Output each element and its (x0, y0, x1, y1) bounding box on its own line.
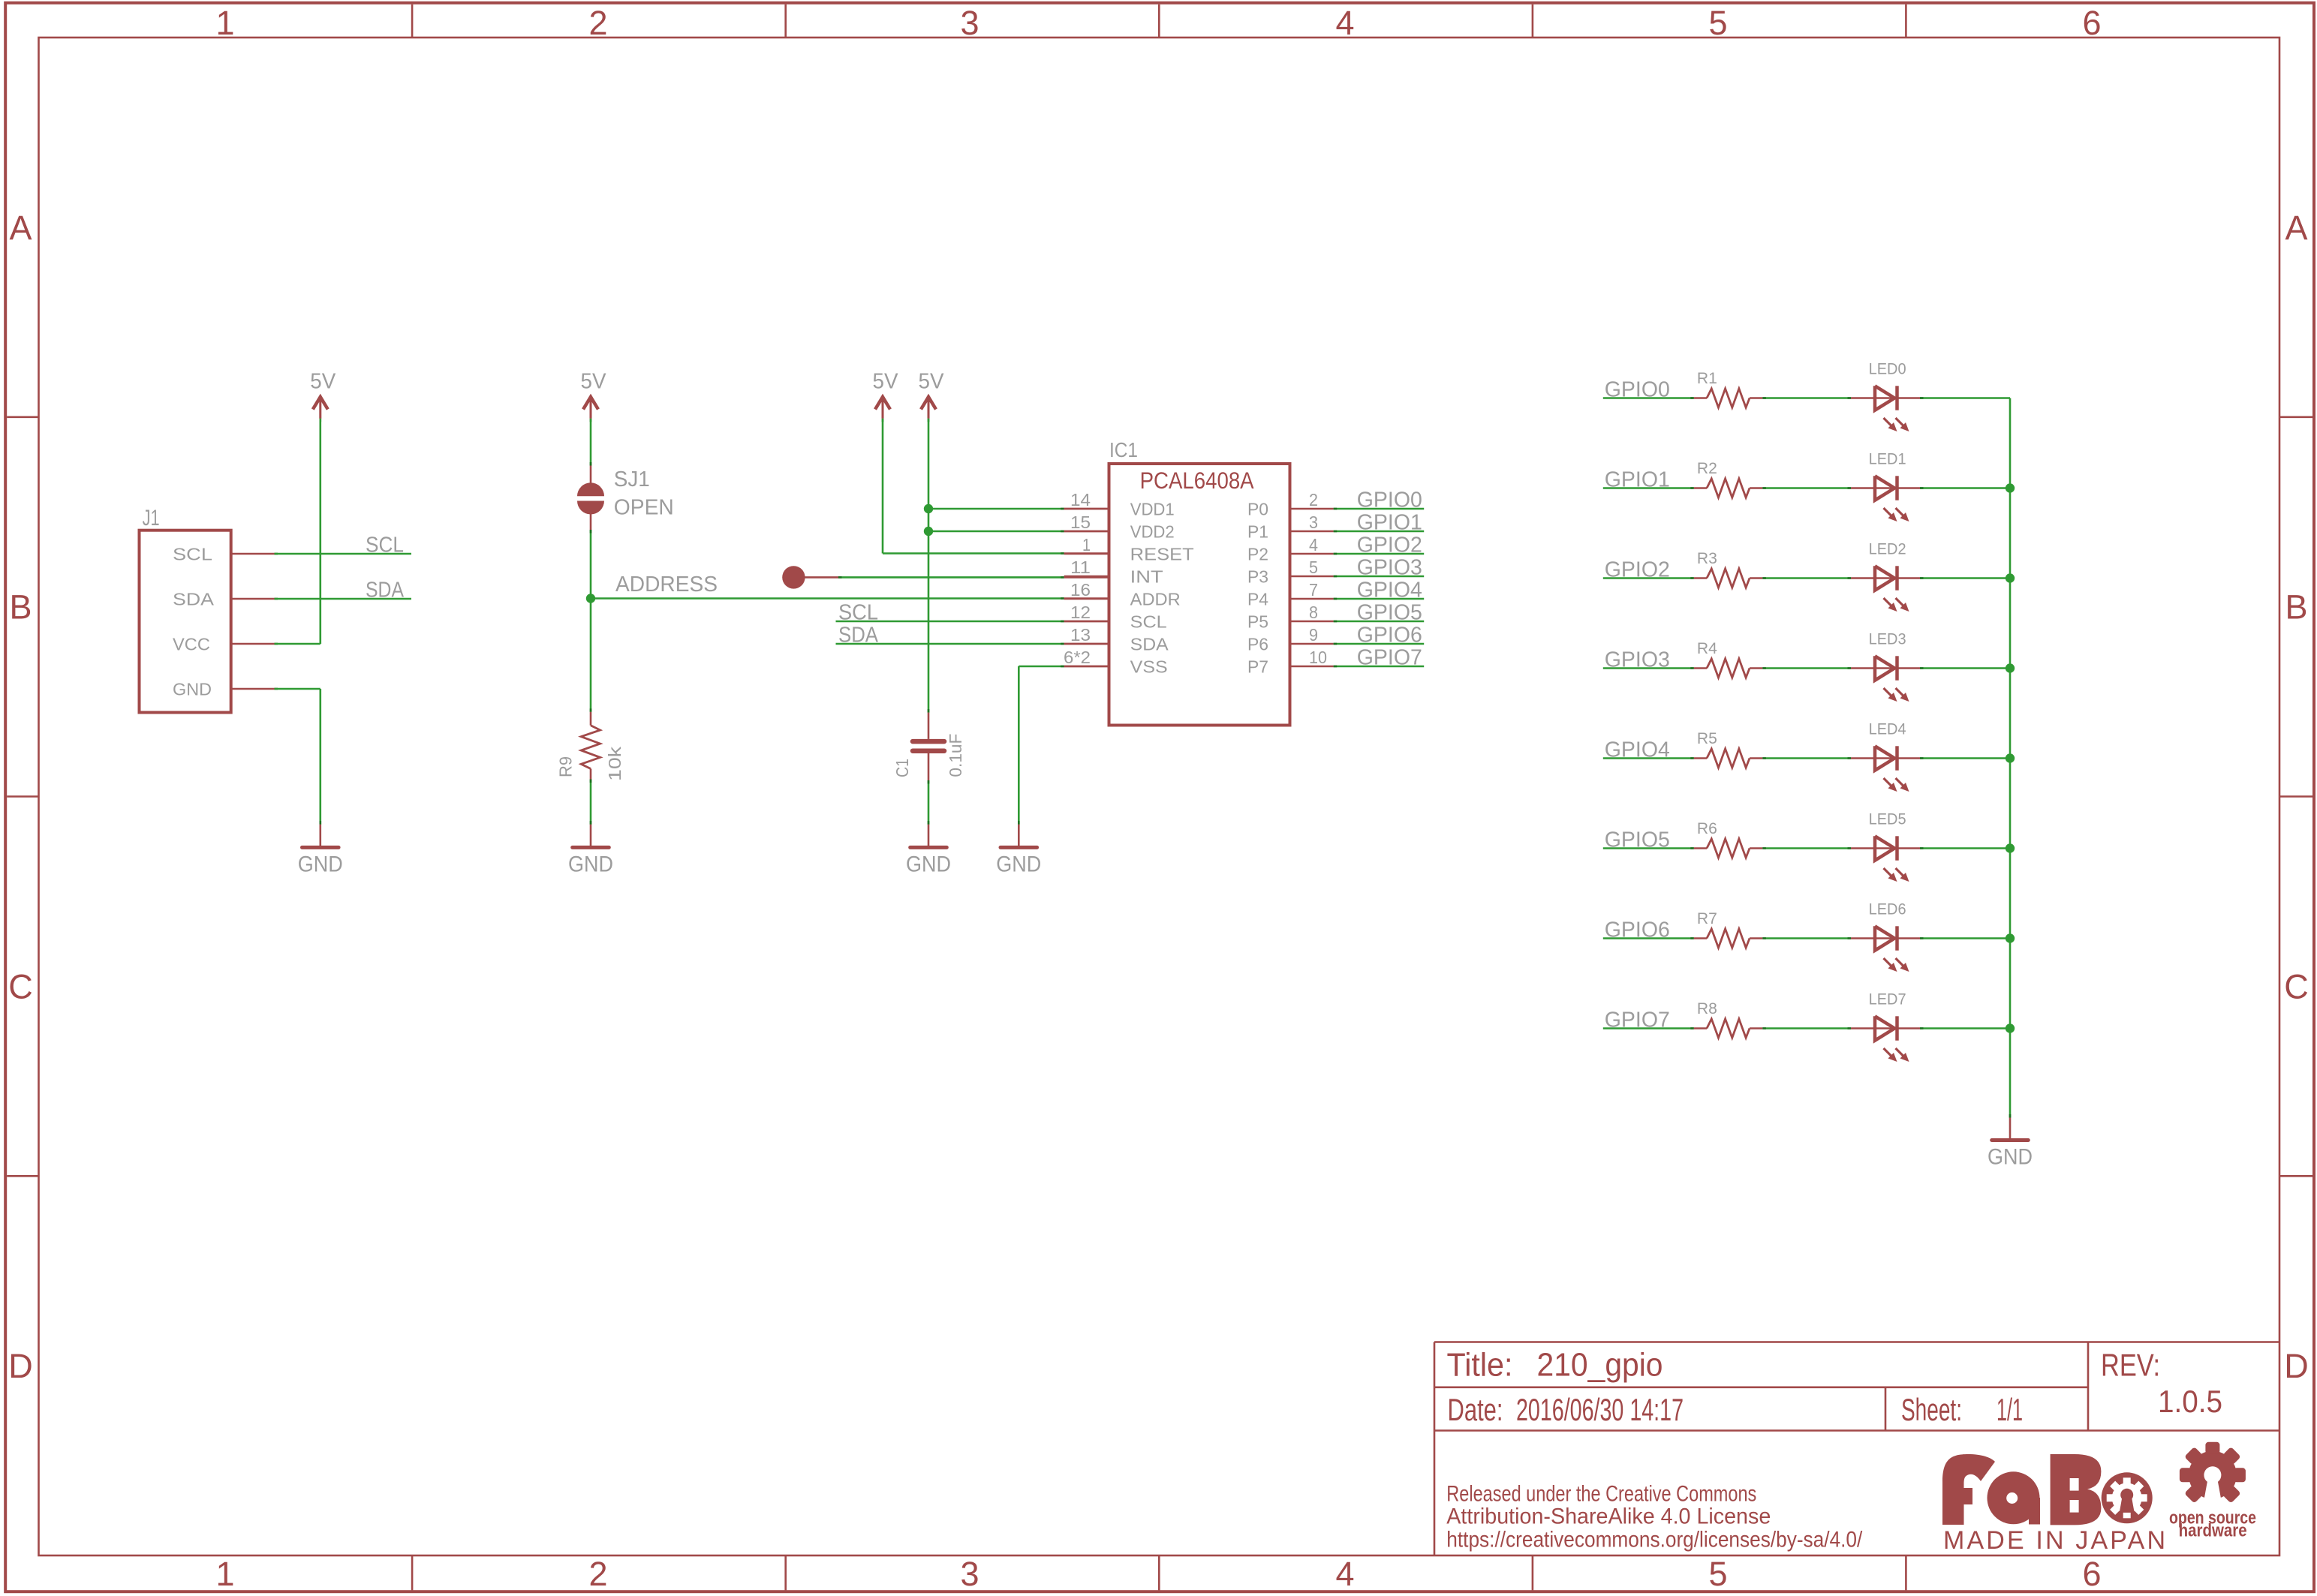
svg-text:C: C (2284, 967, 2309, 1005)
svg-text:3: 3 (960, 4, 979, 42)
svg-text:Released under the Creative Co: Released under the Creative Commons (1446, 1481, 1756, 1506)
svg-text:1.0.5: 1.0.5 (2158, 1384, 2222, 1419)
svg-text:4: 4 (1335, 4, 1354, 42)
svg-text:GND: GND (173, 680, 212, 699)
svg-text:https://creativecommons.org/li: https://creativecommons.org/licenses/by-… (1446, 1527, 1863, 1552)
svg-text:5V: 5V (919, 370, 945, 394)
svg-text:P4: P4 (1247, 590, 1268, 609)
svg-text:ADDRESS: ADDRESS (615, 573, 718, 597)
svg-text:LED2: LED2 (1869, 541, 1906, 558)
svg-text:GPIO4: GPIO4 (1357, 579, 1422, 603)
svg-text:GPIO7: GPIO7 (1357, 646, 1422, 670)
svg-text:GPIO6: GPIO6 (1605, 918, 1670, 942)
svg-text:VDD1: VDD1 (1130, 500, 1175, 519)
svg-text:GPIO0: GPIO0 (1357, 488, 1422, 512)
svg-text:6: 6 (2082, 4, 2101, 42)
svg-text:5V: 5V (581, 370, 607, 394)
svg-text:15: 15 (1070, 512, 1091, 532)
svg-text:GPIO1: GPIO1 (1605, 467, 1670, 491)
svg-text:Date:: Date: (1448, 1392, 1503, 1427)
svg-text:VSS: VSS (1130, 657, 1168, 677)
svg-text:LED7: LED7 (1869, 991, 1906, 1008)
svg-text:5V: 5V (310, 370, 336, 394)
svg-text:2: 2 (588, 1555, 607, 1593)
svg-text:R8: R8 (1697, 1000, 1717, 1017)
svg-text:2016/06/30 14:17: 2016/06/30 14:17 (1516, 1392, 1684, 1427)
svg-text:LED6: LED6 (1869, 901, 1906, 918)
svg-text:GPIO2: GPIO2 (1605, 558, 1670, 582)
svg-text:ADDR: ADDR (1130, 590, 1181, 609)
svg-text:R5: R5 (1697, 730, 1717, 747)
svg-text:GPIO4: GPIO4 (1605, 738, 1670, 762)
svg-text:SCL: SCL (838, 601, 878, 625)
svg-text:R1: R1 (1697, 370, 1717, 387)
svg-text:2: 2 (588, 4, 607, 42)
svg-text:3: 3 (1309, 512, 1318, 532)
svg-text:GPIO1: GPIO1 (1357, 511, 1422, 535)
svg-text:C1: C1 (892, 759, 912, 777)
svg-text:PCAL6408A: PCAL6408A (1140, 467, 1255, 494)
svg-text:A: A (2285, 209, 2307, 247)
svg-text:C: C (8, 967, 33, 1005)
svg-text:R9: R9 (556, 756, 576, 777)
svg-text:GPIO0: GPIO0 (1605, 377, 1670, 401)
svg-text:GPIO7: GPIO7 (1605, 1008, 1670, 1032)
svg-text:GND: GND (996, 852, 1041, 877)
svg-text:Title:: Title: (1447, 1348, 1513, 1384)
svg-text:OPEN: OPEN (614, 496, 674, 520)
svg-text:J1: J1 (143, 506, 160, 530)
svg-text:3: 3 (960, 1555, 979, 1593)
svg-text:GPIO2: GPIO2 (1357, 534, 1422, 558)
svg-text:REV:: REV: (2101, 1348, 2160, 1383)
svg-text:2: 2 (1309, 490, 1318, 509)
svg-text:SJ1: SJ1 (614, 467, 650, 491)
svg-text:10k: 10k (605, 747, 624, 781)
svg-text:SDA: SDA (838, 624, 879, 648)
svg-text:10: 10 (1309, 648, 1327, 667)
svg-text:SCL: SCL (366, 534, 404, 558)
svg-text:GND: GND (906, 852, 951, 877)
svg-text:R2: R2 (1697, 460, 1717, 477)
svg-text:SCL: SCL (1130, 612, 1167, 632)
svg-text:R7: R7 (1697, 910, 1717, 927)
svg-text:P6: P6 (1247, 635, 1268, 654)
svg-text:1/1: 1/1 (1997, 1392, 2023, 1427)
svg-text:4: 4 (1335, 1555, 1354, 1593)
svg-text:SDA: SDA (366, 579, 405, 603)
svg-text:GPIO3: GPIO3 (1605, 648, 1670, 672)
svg-text:GND: GND (568, 852, 613, 877)
svg-text:R6: R6 (1697, 820, 1717, 837)
svg-text:hardware: hardware (2179, 1521, 2247, 1541)
svg-text:13: 13 (1070, 625, 1091, 645)
svg-text:A: A (9, 209, 32, 247)
svg-text:5: 5 (1309, 558, 1318, 577)
svg-text:5V: 5V (873, 370, 899, 394)
svg-text:INT: INT (1130, 567, 1163, 587)
svg-text:8: 8 (1309, 603, 1318, 622)
svg-text:R3: R3 (1697, 550, 1717, 567)
svg-text:LED0: LED0 (1869, 361, 1906, 378)
svg-text:LED3: LED3 (1869, 631, 1906, 648)
svg-text:MADE IN JAPAN: MADE IN JAPAN (1943, 1526, 2165, 1555)
svg-text:B: B (9, 588, 32, 627)
svg-text:1: 1 (215, 4, 234, 42)
svg-text:5: 5 (1708, 4, 1727, 42)
svg-text:12: 12 (1070, 603, 1091, 622)
svg-text:GPIO5: GPIO5 (1605, 828, 1670, 852)
svg-text:7: 7 (1309, 580, 1318, 600)
svg-text:LED4: LED4 (1869, 721, 1906, 738)
svg-text:0.1uF: 0.1uF (946, 734, 965, 777)
svg-text:RESET: RESET (1130, 545, 1194, 564)
svg-text:GPIO6: GPIO6 (1357, 624, 1422, 648)
svg-text:9: 9 (1309, 625, 1318, 645)
svg-text:P0: P0 (1247, 500, 1268, 519)
svg-text:SDA: SDA (173, 590, 214, 609)
svg-text:GPIO5: GPIO5 (1357, 601, 1422, 625)
svg-text:P3: P3 (1247, 567, 1268, 587)
svg-text:IC1: IC1 (1109, 438, 1138, 461)
svg-text:D: D (8, 1347, 33, 1385)
svg-text:14: 14 (1070, 490, 1091, 509)
svg-text:6*2: 6*2 (1064, 648, 1091, 667)
svg-text:1: 1 (215, 1555, 234, 1593)
svg-text:SDA: SDA (1130, 635, 1169, 654)
svg-text:11: 11 (1070, 558, 1091, 577)
svg-text:5: 5 (1708, 1555, 1727, 1593)
svg-text:P5: P5 (1247, 612, 1268, 632)
svg-text:R4: R4 (1697, 640, 1717, 657)
svg-text:VCC: VCC (173, 635, 210, 654)
svg-text:GND: GND (298, 852, 343, 877)
svg-text:VDD2: VDD2 (1130, 522, 1175, 542)
svg-text:1: 1 (1082, 535, 1091, 555)
svg-text:B: B (2285, 588, 2307, 627)
svg-text:4: 4 (1309, 535, 1318, 555)
svg-text:210_gpio: 210_gpio (1537, 1348, 1663, 1384)
svg-text:P1: P1 (1247, 522, 1268, 542)
svg-text:GND: GND (1988, 1145, 2033, 1170)
svg-text:D: D (2284, 1347, 2309, 1385)
svg-text:16: 16 (1070, 580, 1091, 600)
svg-text:LED1: LED1 (1869, 451, 1906, 468)
svg-text:P2: P2 (1247, 545, 1268, 564)
svg-text:SCL: SCL (173, 545, 212, 564)
svg-text:6: 6 (2082, 1555, 2101, 1593)
svg-text:GPIO3: GPIO3 (1357, 556, 1422, 580)
svg-text:P7: P7 (1247, 657, 1268, 677)
svg-text:LED5: LED5 (1869, 811, 1906, 828)
svg-text:Attribution-ShareAlike 4.0 Lic: Attribution-ShareAlike 4.0 License (1446, 1504, 1771, 1529)
svg-text:Sheet:: Sheet: (1901, 1392, 1962, 1427)
